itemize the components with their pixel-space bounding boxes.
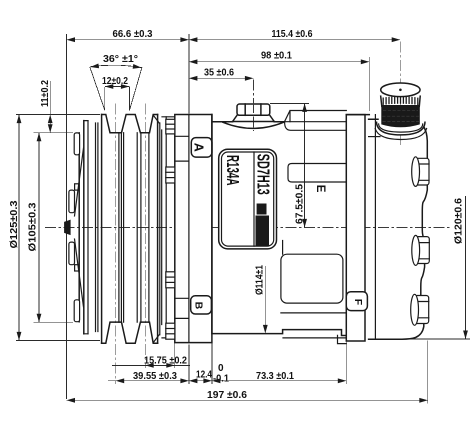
mounting plate <box>175 115 212 343</box>
oil cap top <box>381 83 420 97</box>
band bottom step <box>338 335 347 343</box>
pulley rear chamfers and face <box>154 116 160 343</box>
bolt M2 <box>166 167 175 183</box>
port badge B <box>191 296 212 314</box>
bolt M3 <box>166 272 175 288</box>
ext lug mid below <box>188 345 190 385</box>
clutch armature friction ring <box>83 121 85 334</box>
dim Ø125±0.3 <box>8 115 21 341</box>
valley 2 centerline <box>144 104 146 369</box>
svg-text:115.4 ±0.6: 115.4 ±0.6 <box>272 28 313 40</box>
pulley front rim ring <box>95 123 97 332</box>
svg-text:A: A <box>191 143 205 152</box>
svg-text:0: 0 <box>218 363 224 374</box>
ext D105 top <box>34 132 74 134</box>
svg-text:73.3 ±0.1: 73.3 ±0.1 <box>256 370 294 382</box>
dim 35±0.6 <box>189 67 254 81</box>
dim 12.4 0/-0.1 <box>189 363 230 385</box>
front housing nose <box>162 117 175 338</box>
svg-text:197 ±0.6: 197 ±0.6 <box>207 389 247 401</box>
svg-text:36° ±1°: 36° ±1° <box>103 53 138 65</box>
clutch tab lower <box>74 300 79 322</box>
cap centerline <box>399 42 401 147</box>
top bolt boss arc <box>223 122 284 128</box>
ext head rear <box>427 341 429 404</box>
ext D125 top <box>16 114 100 116</box>
svg-text:39.55 ±0.3: 39.55 ±0.3 <box>133 370 177 382</box>
svg-text:12.4: 12.4 <box>196 370 212 381</box>
ext D105 bottom <box>34 321 74 323</box>
svg-text:Ø114±1: Ø114±1 <box>254 265 266 295</box>
ext plate rear below <box>211 334 213 384</box>
svg-text:B: B <box>192 302 204 310</box>
svg-text:35 ±0.6: 35 ±0.6 <box>204 67 234 79</box>
ext mounting lug face top <box>188 34 190 114</box>
clutch tab upper <box>74 133 79 155</box>
svg-text:E: E <box>314 185 326 193</box>
port badge F <box>346 292 367 311</box>
dim 12±0.2 <box>102 76 129 89</box>
label plate <box>219 149 277 249</box>
svg-text:R134A: R134A <box>223 155 243 186</box>
dim 197±0.6 <box>67 389 428 403</box>
clutch tab lower-mid <box>69 242 75 265</box>
band top step <box>346 114 369 116</box>
clutch step upper <box>75 184 79 190</box>
valley 1 centerline <box>115 104 117 385</box>
fitting 2 <box>412 235 430 265</box>
dim 11±0.2 <box>39 80 53 133</box>
pulley outline with V-grooves <box>102 115 158 133</box>
sanden logo square <box>257 204 267 215</box>
fitting 1 <box>412 157 429 187</box>
dim Ø114±1 <box>254 265 268 334</box>
dim 115.4±0.6 <box>189 28 400 42</box>
ext 12dim left <box>104 87 106 110</box>
main horizontal centerline <box>45 226 452 228</box>
ext 12dim right <box>128 87 130 110</box>
dim 98±0.1 <box>189 50 369 65</box>
dim 73.3±0.1 <box>212 370 346 383</box>
E pad lines <box>288 164 346 183</box>
pulley front face <box>101 115 103 344</box>
svg-text:11±0.2: 11±0.2 <box>39 80 51 107</box>
svg-text:SD7H13: SD7H13 <box>253 154 273 195</box>
cylinder body <box>212 115 346 336</box>
svg-text:-0.1: -0.1 <box>213 373 229 384</box>
dim Ø105±0.3 <box>26 133 41 323</box>
dim 67.5±0.5 <box>293 103 307 227</box>
pulley groove root lines <box>118 133 120 322</box>
clutch step lower <box>75 265 79 271</box>
clutch front plate <box>78 133 80 322</box>
oil cap flange <box>377 122 426 135</box>
plate step lines <box>175 136 189 318</box>
svg-text:Ø125±0.3: Ø125±0.3 <box>8 200 20 248</box>
svg-text:Ø120±0.6: Ø120±0.6 <box>453 198 465 244</box>
top rib <box>285 111 347 122</box>
rear band <box>346 115 365 341</box>
top bolt washer <box>233 115 275 121</box>
rear head <box>369 119 428 339</box>
fitting 3 <box>411 294 429 325</box>
svg-text:15.75 ±0.2: 15.75 ±0.2 <box>144 354 187 366</box>
pulley rear flange face <box>157 115 159 344</box>
lower right panel <box>281 254 343 303</box>
ext plate front below <box>174 341 176 368</box>
shaft nut <box>65 220 71 234</box>
top bolt hex head <box>237 104 270 115</box>
bolt M1 <box>166 119 175 134</box>
ext block rear below <box>345 337 347 384</box>
svg-text:12±0.2: 12±0.2 <box>102 76 128 87</box>
svg-text:Ø105±0.3: Ø105±0.3 <box>26 202 38 251</box>
bearing hub line <box>161 130 163 325</box>
clutch damper diagonal lower <box>75 239 84 307</box>
dim 39.55±0.3 <box>108 370 189 383</box>
clutch damper diagonal upper <box>75 148 84 216</box>
oil cap dark band <box>382 106 420 127</box>
body lip line <box>285 123 347 131</box>
ext head front face <box>368 57 370 111</box>
ext clutch front face <box>66 34 68 399</box>
svg-text:66.6 ±0.3: 66.6 ±0.3 <box>113 28 153 40</box>
dim Ø120±0.6 <box>453 196 468 339</box>
svg-text:98 ±0.1: 98 ±0.1 <box>261 50 292 62</box>
top bolt centerline <box>252 80 254 132</box>
svg-text:67.5±0.5: 67.5±0.5 <box>293 184 305 224</box>
sanden logo bar <box>256 216 270 246</box>
bolt M4 <box>166 323 175 339</box>
svg-text:F: F <box>352 299 364 306</box>
dim 36°±1° groove angle <box>90 53 142 111</box>
dim 66.6±0.3 <box>67 28 189 42</box>
port badge A <box>191 138 212 158</box>
ext D125 bottom <box>16 339 100 341</box>
oil cap knurl band <box>381 96 421 106</box>
ext 67.5 top <box>270 102 309 104</box>
clutch tab upper-mid <box>69 190 75 213</box>
dim 15.75±0.2 <box>112 354 190 367</box>
ext D120 bottom <box>408 338 470 340</box>
